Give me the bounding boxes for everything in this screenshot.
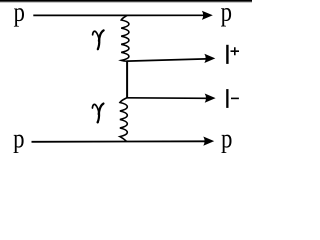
label gamma2 (drawn) [92, 104, 103, 124]
arrowhead on bottom proton line [203, 137, 214, 146]
wire: l+ line [127, 59, 206, 61]
label l- minus sign [231, 97, 239, 99]
arrowhead on l+ line [204, 54, 215, 63]
label p (bottom right proton) [221, 135, 231, 153]
photon gamma1 wavy line [121, 15, 129, 61]
label gamma1 (drawn) [93, 30, 104, 50]
label l+ bar [226, 45, 228, 64]
label p (top right proton) [221, 8, 231, 26]
label l+ plus sign [231, 47, 240, 55]
wire: top proton line [33, 14, 205, 16]
arrowhead on l- line [205, 94, 216, 103]
label p (top left proton) [14, 8, 24, 26]
photon gamma2 wavy line [120, 98, 127, 142]
arrowhead on top proton line [202, 11, 213, 20]
label l- bar [226, 89, 228, 108]
label p (bottom left proton) [14, 135, 24, 153]
wire: bottom proton line [32, 140, 207, 143]
top rule line [0, 0, 252, 2]
lepton propagator vertical line [126, 61, 128, 98]
wire: l- line [127, 97, 207, 100]
